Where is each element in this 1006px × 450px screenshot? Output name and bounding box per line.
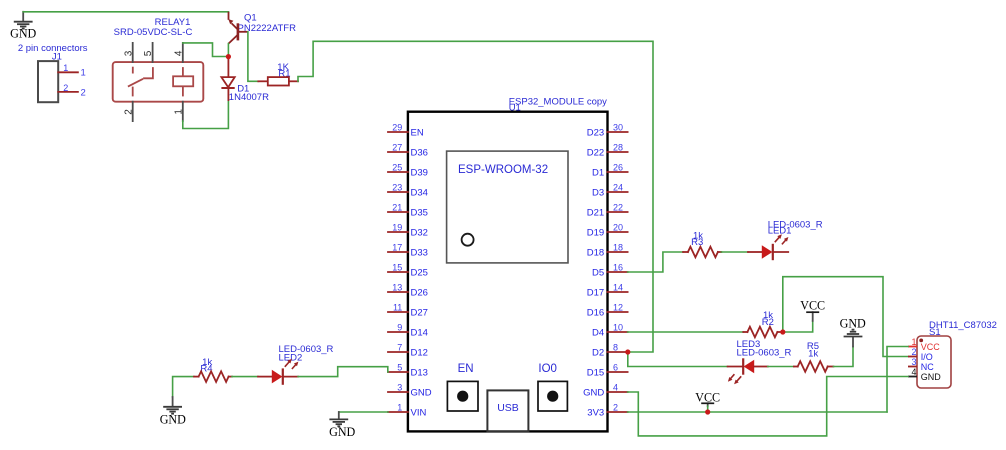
resistor R3 1k (683, 231, 721, 258)
svg-text:1: 1 (81, 68, 86, 79)
ESP32 module U1 (ESP32_MODULE copy) (408, 96, 608, 431)
svg-text:1: 1 (911, 337, 916, 347)
svg-text:D14: D14 (411, 327, 428, 338)
svg-text:8: 8 (613, 343, 618, 353)
power VCC (upper) (800, 299, 825, 321)
ESP32 pin 8 D2 (592, 343, 628, 359)
svg-text:24: 24 (613, 183, 623, 193)
svg-text:18: 18 (613, 243, 623, 253)
svg-text:D4: D4 (592, 327, 604, 338)
svg-text:D1: D1 (592, 167, 604, 178)
wire VIN to GND stem (339, 411, 388, 413)
svg-text:GND: GND (921, 372, 942, 382)
relay pin 3 (132, 43, 134, 62)
ESP32 pin 29 EN (388, 123, 424, 139)
svg-text:27: 27 (392, 143, 402, 153)
svg-text:GND: GND (840, 316, 866, 330)
svg-text:4: 4 (911, 367, 916, 377)
svg-text:17: 17 (392, 243, 402, 253)
svg-text:D33: D33 (411, 247, 428, 258)
relay switch contact (132, 67, 134, 74)
svg-text:5: 5 (397, 363, 402, 373)
svg-text:4: 4 (613, 383, 618, 393)
svg-text:D22: D22 (587, 147, 604, 158)
ESP32 inner ESP-WROOM-32 box (447, 151, 568, 263)
ground GND (inverted, right) (840, 316, 866, 346)
svg-text:D5: D5 (592, 267, 604, 278)
svg-text:19: 19 (392, 223, 402, 233)
svg-text:D36: D36 (411, 147, 428, 158)
svg-text:VCC: VCC (800, 299, 825, 313)
svg-text:7: 7 (397, 343, 402, 353)
LED LED1 LED-0603_R (748, 219, 823, 260)
ESP32 pin 2 3V3 (587, 403, 627, 419)
wire D2 junction down to LED3 (628, 352, 728, 367)
svg-text:2: 2 (123, 109, 134, 115)
svg-text:D27: D27 (411, 307, 428, 318)
svg-text:D35: D35 (411, 207, 428, 218)
wire LED-loop: I/O net from R2 node up-over to DHT pin2 (783, 277, 908, 357)
ESP32 pin 24 D3 (592, 183, 628, 199)
svg-text:EN: EN (458, 363, 474, 375)
wire R5 to GND (inverted) (833, 347, 853, 367)
svg-text:VCC: VCC (695, 390, 720, 404)
svg-text:1k: 1k (808, 349, 818, 360)
svg-text:D23: D23 (587, 127, 604, 138)
ESP32 IO0 button (538, 363, 567, 411)
junction node A (Q1 collector / relay pin4 / D1) (226, 54, 231, 59)
wire LED2 to D13 (298, 367, 388, 377)
J1 pin 1 (58, 71, 78, 73)
svg-text:D21: D21 (587, 207, 604, 218)
svg-text:D16: D16 (587, 307, 604, 318)
ESP32 pin 14 D17 (587, 283, 628, 299)
wire junction to VCC stem (783, 321, 813, 332)
ground GND (below R4) (160, 397, 186, 427)
svg-text:3: 3 (123, 50, 134, 56)
wire 3V3 to VCC run (628, 411, 887, 413)
ground GND (below VIN wire) (329, 412, 355, 439)
svg-text:28: 28 (613, 143, 623, 153)
DHT pin 2 I/O (908, 356, 917, 358)
svg-text:22: 22 (613, 203, 623, 213)
ESP32 pin 22 D21 (587, 203, 628, 219)
svg-text:2: 2 (613, 403, 618, 413)
svg-text:R3: R3 (691, 237, 703, 248)
svg-text:D3: D3 (592, 187, 604, 198)
connector J1 (2 pin connectors) (18, 43, 88, 102)
ESP32 pin 19 D32 (388, 223, 428, 239)
svg-text:D13: D13 (411, 367, 428, 378)
svg-text:29: 29 (392, 123, 402, 133)
wire D5 to R3 (628, 252, 684, 272)
svg-text:26: 26 (613, 163, 623, 173)
relay coil (173, 76, 193, 86)
svg-text:21: 21 (392, 203, 402, 213)
DHT pin 1 VCC (908, 346, 917, 348)
svg-text:11: 11 (393, 303, 402, 313)
svg-text:16: 16 (613, 263, 623, 273)
relay pin 5 (152, 43, 154, 62)
ESP32 pin 4 GND (583, 383, 628, 399)
relay RELAY1 SRD-05VDC-SL-C (113, 17, 204, 121)
ESP32 pin 27 D36 (388, 143, 428, 159)
LED LED2 LED-0603_R (258, 344, 334, 385)
ESP32 pin 23 D34 (388, 183, 428, 199)
power VCC (lower) (695, 390, 720, 412)
svg-text:VIN: VIN (411, 407, 427, 418)
wire R4 to LED2 (232, 376, 258, 378)
svg-text:D2: D2 (592, 347, 604, 358)
ESP32 pin 17 D33 (388, 243, 428, 259)
ESP32 pin 16 D5 (592, 263, 628, 279)
svg-text:LED-0603_R: LED-0603_R (737, 348, 792, 359)
svg-text:IO0: IO0 (538, 363, 557, 375)
junction node R2/VCC/DHT-IO (780, 329, 785, 334)
wire Q1 base to R1 (248, 32, 258, 82)
resistor R4 1k (194, 357, 232, 382)
svg-text:NC: NC (921, 362, 934, 372)
svg-text:23: 23 (392, 183, 402, 193)
ESP32 pin 1 VIN (388, 403, 426, 419)
relay pin 4 (182, 43, 184, 62)
ESP32 USB box (487, 390, 528, 431)
resistor R2 1k (743, 310, 783, 337)
transistor Q1 PN2222ATFR (228, 12, 296, 44)
relay pin 2 (132, 102, 134, 121)
ESP32 pin 30 D23 (587, 123, 628, 139)
svg-text:R2: R2 (762, 317, 774, 328)
ESP32 pin 6 D15 (587, 363, 628, 379)
J1 pin 2 (58, 91, 78, 93)
ESP32 pin 9 D14 (388, 323, 428, 339)
svg-text:2: 2 (911, 347, 916, 357)
wire Q1 collector to node A (227, 44, 229, 57)
svg-text:EN: EN (411, 127, 424, 138)
junction node VCC/3V3 (705, 409, 710, 414)
svg-text:D12: D12 (411, 347, 428, 358)
svg-text:D34: D34 (411, 187, 428, 198)
wire LED3 to R5 (768, 366, 794, 368)
ESP32 pin 20 D19 (587, 223, 628, 239)
wire R3 to LED1 (721, 251, 748, 253)
wire GND to Q1 emitter (top horizontal) (23, 11, 228, 13)
svg-text:USB: USB (497, 402, 519, 414)
svg-text:LED1: LED1 (768, 226, 792, 237)
svg-text:GND: GND (10, 27, 36, 41)
svg-text:D32: D32 (411, 227, 428, 238)
ESP32 pin 12 D16 (587, 303, 628, 319)
wire R1 to D2 junction (long top route) (298, 41, 653, 352)
svg-text:20: 20 (613, 223, 623, 233)
svg-text:VCC: VCC (921, 342, 941, 352)
svg-text:10: 10 (613, 323, 623, 333)
LED LED3 LED-0603_R (mirrored) (728, 339, 792, 384)
svg-text:9: 9 (397, 323, 402, 333)
svg-text:2: 2 (81, 87, 86, 98)
ESP32 pin 18 D18 (587, 243, 628, 259)
wire ESP GND pin to DHT pin4 (bottom route) (628, 377, 908, 436)
svg-text:3: 3 (911, 357, 916, 367)
wire DHT pin1 VCC down to 3V3 run (887, 347, 908, 413)
ESP32 EN button (447, 363, 478, 411)
DHT pin 4 GND (908, 376, 917, 378)
svg-text:D25: D25 (411, 267, 428, 278)
ESP32 pin 26 D1 (592, 163, 628, 179)
svg-text:GND: GND (583, 387, 604, 398)
svg-text:1: 1 (397, 403, 402, 413)
ESP32 pin 15 D25 (388, 263, 428, 279)
DHT pin 3 NC (908, 366, 917, 368)
ESP32 pin 3 GND (388, 383, 432, 399)
wire relay pin1 to D1 cathode (183, 101, 229, 129)
svg-text:2: 2 (63, 83, 68, 93)
svg-text:6: 6 (613, 363, 618, 373)
relay pin 1 (182, 102, 184, 121)
svg-text:I/O: I/O (921, 352, 933, 362)
ESP32 pin 21 D35 (388, 203, 428, 219)
DHT pin 1 marker dot (919, 339, 923, 343)
svg-text:D15: D15 (587, 367, 604, 378)
ESP32 pin 11 D27 (388, 303, 428, 319)
wire D4 to R2 (628, 331, 744, 333)
resistor R1 1K (258, 62, 298, 86)
svg-text:Q1: Q1 (244, 12, 257, 23)
ESP32 pin 10 D4 (592, 323, 628, 339)
svg-text:3V3: 3V3 (587, 407, 604, 418)
pin-1 circle marker (462, 234, 474, 246)
wire relay pin4 to node A (183, 43, 226, 57)
svg-text:D18: D18 (587, 247, 604, 258)
svg-text:D39: D39 (411, 167, 428, 178)
svg-text:SRD-05VDC-SL-C: SRD-05VDC-SL-C (114, 27, 193, 38)
svg-text:30: 30 (613, 123, 623, 133)
svg-text:GND: GND (160, 413, 186, 427)
sensor S1 DHT11_C87032 (908, 320, 997, 388)
junction node D2 (625, 349, 630, 354)
wire GND symbol to R4 (173, 377, 194, 397)
svg-text:15: 15 (392, 263, 402, 273)
svg-text:12: 12 (613, 303, 623, 313)
ground GND top-left (10, 12, 36, 41)
svg-text:5: 5 (143, 50, 154, 56)
svg-text:13: 13 (392, 283, 402, 293)
svg-text:ESP-WROOM-32: ESP-WROOM-32 (458, 164, 548, 176)
svg-text:25: 25 (392, 163, 402, 173)
svg-text:ESP32_MODULE copy: ESP32_MODULE copy (509, 96, 607, 107)
svg-text:1N4007R: 1N4007R (229, 92, 269, 103)
svg-text:1: 1 (63, 63, 68, 73)
resistor R5 1k (794, 341, 834, 372)
svg-text:14: 14 (613, 283, 623, 293)
svg-text:1: 1 (173, 109, 184, 115)
svg-text:4: 4 (173, 50, 184, 56)
svg-text:D26: D26 (411, 287, 428, 298)
ESP32 pin 7 D12 (388, 343, 428, 359)
diode D1 1N4007R (221, 57, 269, 103)
svg-text:GND: GND (411, 387, 432, 398)
ESP32 pin 13 D26 (388, 283, 428, 299)
svg-text:D19: D19 (587, 227, 604, 238)
svg-text:3: 3 (397, 383, 402, 393)
ESP32 pin 25 D39 (388, 163, 428, 179)
ESP32 pin 5 D13 (388, 363, 428, 379)
svg-text:GND: GND (329, 425, 355, 439)
ESP32 pin 28 D22 (587, 143, 628, 159)
svg-text:D17: D17 (587, 287, 604, 298)
